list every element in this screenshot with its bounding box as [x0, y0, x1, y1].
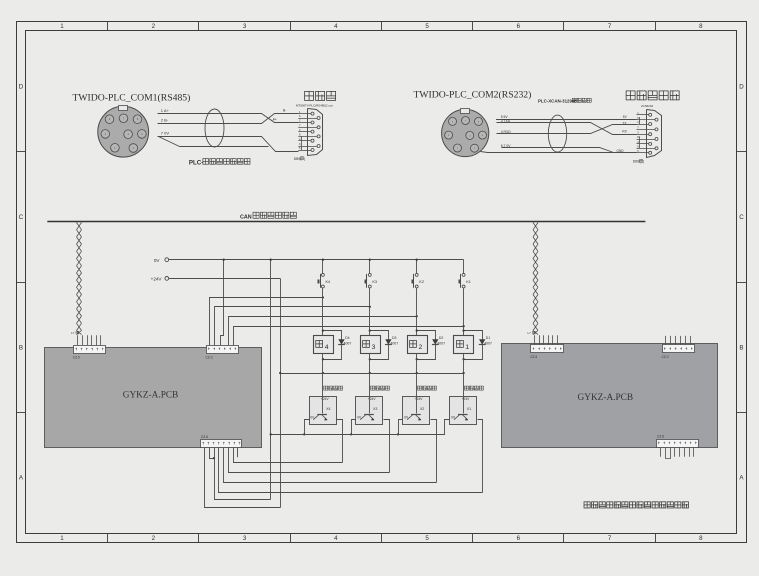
proximity switch X3: [356, 397, 383, 425]
connector J2 mini-DIN8 PLC COM2: [442, 109, 489, 157]
svg-text:): ): [643, 160, 644, 164]
label touchscreen title: [305, 91, 336, 100]
connector CZ.5 left PCB top-left: [73, 335, 106, 359]
svg-text:0V: 0V: [154, 258, 161, 263]
connector CZ.6 left PCB bottom: [201, 435, 242, 448]
wire X1 0V leg: [445, 420, 450, 435]
wire 0V to K2: [416, 259, 418, 274]
wire COM2 TXD: [497, 119, 637, 135]
wire X2 output leg: [431, 420, 437, 483]
svg-text:K3: K3: [372, 280, 377, 284]
wire COM2 0V: [501, 144, 614, 153]
wire 0V to K1: [463, 260, 465, 274]
wire valve control V3: [215, 306, 371, 346]
svg-text:PLC-: PLC-: [189, 159, 203, 166]
svg-text:D2: D2: [439, 336, 444, 340]
svg-text:1: 1: [465, 344, 469, 351]
svg-text:7: 7: [608, 535, 612, 542]
wire COM2 shield: [481, 152, 637, 153]
label COM1 title: [73, 92, 191, 103]
wire COM1 0V: [158, 131, 299, 152]
wire CZ.6 pin4 to X1: [219, 448, 483, 493]
svg-text:+24V: +24V: [151, 277, 163, 282]
wire 0V rail: [169, 259, 464, 261]
svg-text:3: 3: [243, 535, 247, 542]
connector DB9 protocol converter: [637, 110, 662, 158]
relay contact K3: [365, 273, 378, 288]
svg-text:X2: X2: [420, 407, 424, 411]
svg-text:7: 7: [637, 126, 639, 130]
wire 0V drop long: [270, 259, 272, 500]
svg-text:2: 2: [152, 535, 156, 542]
diode D2 flyback loop: [416, 329, 446, 360]
wire valve 4 to switch X4: [322, 353, 324, 396]
svg-text:B-: B-: [283, 108, 286, 112]
label protocol converter title: [626, 91, 679, 100]
label DB9 socket left: [294, 157, 305, 161]
svg-text:A: A: [19, 475, 24, 482]
svg-text:B: B: [19, 344, 23, 351]
svg-text:9: 9: [299, 142, 301, 146]
diode D4 flyback loop: [322, 329, 352, 360]
terminal +24V: [151, 277, 169, 282]
wire valve 1 to switch X1: [462, 353, 464, 396]
svg-text:L7: L7: [528, 331, 532, 335]
svg-text:3 TXD: 3 TXD: [501, 119, 511, 123]
relay contact K4: [318, 273, 331, 288]
svg-text:GND: GND: [617, 149, 625, 153]
wire CZ.6 pin8 stub: [237, 448, 239, 458]
label proximity switch 1: [464, 386, 483, 390]
svg-text:GYKZ-A.PCB: GYKZ-A.PCB: [123, 391, 179, 401]
svg-text:DB9(: DB9(: [633, 160, 642, 164]
node TX at DB9: [622, 121, 627, 125]
wire X3 0V leg: [350, 420, 356, 436]
svg-text:8: 8: [299, 133, 301, 137]
svg-text:3: 3: [243, 23, 247, 30]
svg-text:4: 4: [334, 23, 338, 30]
connector CZ.C left PCB top-right: [206, 346, 239, 360]
diode D1 flyback loop: [462, 329, 492, 360]
wire valve control V2: [229, 315, 418, 345]
svg-text:X4: X4: [326, 407, 330, 411]
wire valve control V4: [210, 296, 325, 345]
svg-text:6: 6: [517, 23, 521, 30]
wire X3 output leg: [384, 420, 390, 473]
svg-text:CZ.5: CZ.5: [530, 355, 537, 359]
svg-text:D1: D1: [486, 336, 491, 340]
wire CZ.6 pin6 to X3: [229, 448, 390, 473]
svg-text:+24V: +24V: [415, 397, 424, 401]
node GND at DB9: [617, 149, 625, 153]
label proximity switch 4: [324, 386, 343, 390]
node A+ at DB9: [273, 118, 277, 122]
label MT506TV-PLC(RS485): [296, 104, 333, 108]
valve V3: [361, 336, 381, 354]
svg-text:GYKZ-A.PCB: GYKZ-A.PCB: [578, 393, 634, 403]
wire COM1 A+: [158, 108, 299, 123]
wire COM1 shield: [159, 137, 269, 147]
svg-text:4: 4: [334, 535, 338, 542]
wire 0V to K3: [369, 259, 371, 274]
wire valve 3 to switch X3: [369, 353, 371, 396]
svg-text:CZ.6: CZ.6: [201, 435, 208, 439]
svg-text:TWIDO-PLC_COM1(RS485): TWIDO-PLC_COM1(RS485): [73, 92, 191, 103]
connector J1 mini-DIN8 PLC COM1: [98, 106, 149, 158]
diode D3 flyback loop: [369, 329, 399, 360]
wire CZ.6 pin5 to X2: [224, 448, 437, 483]
svg-text:A+: A+: [273, 118, 277, 122]
label L7M left: [71, 331, 79, 335]
wire K2 to valve 2: [416, 288, 418, 335]
valve V2: [408, 336, 428, 354]
node RX at DB9: [622, 129, 627, 133]
label DB9 plug right: [633, 159, 644, 163]
svg-text:6: 6: [299, 114, 301, 118]
wire +24V rail to valves: [279, 372, 464, 374]
svg-text:3: 3: [372, 344, 376, 351]
wire COM2 RXD: [497, 125, 637, 134]
connector CZ.8 right PCB bottom: [657, 435, 699, 459]
svg-text:D: D: [739, 84, 744, 91]
wire X2 0V leg: [397, 420, 403, 436]
svg-text:CZ.8: CZ.8: [657, 435, 664, 439]
label PLC-touchscreen comm cable: [189, 159, 250, 167]
relay contact K2: [412, 273, 424, 288]
valve V1: [454, 336, 474, 354]
label L7M right: [528, 331, 536, 335]
proximity switch X1: [450, 397, 477, 425]
svg-text:2CS6232: 2CS6232: [641, 104, 653, 108]
svg-text:X3: X3: [373, 407, 377, 411]
svg-text:4: 4: [325, 344, 329, 351]
connector CZ.C right PCB top-right: [662, 336, 695, 359]
wire X4 0V leg: [303, 420, 309, 436]
label CAN bus: [240, 212, 296, 220]
label PLC-XCAN comm cable: [538, 98, 591, 103]
svg-text:5V: 5V: [623, 115, 628, 119]
svg-text:9: 9: [637, 145, 639, 149]
svg-text:CZ.C: CZ.C: [206, 355, 214, 359]
svg-text:D3: D3: [392, 336, 397, 340]
proximity switch X2: [403, 397, 430, 425]
svg-text:5: 5: [425, 23, 429, 30]
svg-text:L7: L7: [71, 331, 75, 335]
valve V4: [314, 336, 334, 354]
connector CZ.5 right PCB top-left: [530, 335, 563, 359]
svg-text:A: A: [739, 475, 744, 482]
svg-text:4007: 4007: [344, 341, 352, 345]
svg-text:): ): [304, 157, 305, 161]
cable shield ellipse right: [548, 115, 566, 152]
svg-text:5: 5: [425, 535, 429, 542]
proximity switch X4: [310, 397, 337, 425]
svg-text:1: 1: [60, 23, 64, 30]
svg-text:7 0V: 7 0V: [161, 131, 170, 136]
svg-text:+24V: +24V: [462, 397, 471, 401]
label 2CS6232: [641, 104, 653, 108]
cable shield ellipse left: [205, 109, 224, 147]
svg-text:4007: 4007: [390, 341, 398, 345]
svg-text:2: 2: [152, 23, 156, 30]
wire CZ.6 pin2 stub: [210, 448, 216, 460]
label proximity switch 2: [417, 386, 436, 390]
svg-text:7: 7: [608, 23, 612, 30]
svg-text:8: 8: [699, 535, 703, 542]
PCB U2 GYKZ-A right: [502, 344, 718, 448]
label proximity switch 3: [371, 386, 390, 390]
svg-text:K1: K1: [466, 280, 471, 284]
wire 0V drop to CZ.C: [221, 259, 225, 346]
svg-text:CAN: CAN: [240, 214, 252, 220]
node 5V at DB9: [623, 115, 628, 119]
svg-text:CZ.C: CZ.C: [662, 355, 670, 359]
svg-text:K2: K2: [419, 280, 424, 284]
svg-text:2: 2: [419, 344, 423, 351]
wire X1 output leg: [478, 420, 483, 493]
svg-text:DB9(: DB9(: [294, 157, 303, 161]
svg-text:4 RXD: 4 RXD: [501, 130, 512, 134]
wire K1 to valve 1: [463, 288, 465, 335]
svg-text:4007: 4007: [437, 341, 445, 345]
svg-text:3: 3: [637, 130, 639, 134]
wire valve 2 to switch X2: [416, 353, 418, 396]
svg-text:D: D: [19, 84, 24, 91]
node B- at DB9: [283, 108, 286, 112]
svg-text:4007: 4007: [484, 341, 492, 345]
wire CZ.6 pin1 to +24V: [205, 448, 281, 508]
wire +24V feed: [169, 278, 281, 507]
svg-text:RX: RX: [622, 129, 627, 133]
svg-text:CZ.5: CZ.5: [73, 356, 80, 360]
terminal 0V: [154, 258, 169, 263]
label system wiring diagram caption: [584, 502, 688, 508]
svg-text:1: 1: [60, 535, 64, 542]
wire COM1 B-: [158, 114, 299, 124]
svg-text:C: C: [739, 214, 744, 221]
svg-text:PLC-XCAN-312948: PLC-XCAN-312948: [538, 98, 577, 103]
wire CZ.6 pin7 to X4: [234, 448, 343, 463]
wire COM2 5V: [496, 115, 637, 120]
PCB U1 GYKZ-A left: [45, 348, 262, 448]
svg-text:8: 8: [699, 23, 703, 30]
svg-text:1 A+: 1 A+: [161, 108, 170, 113]
svg-text:K4: K4: [326, 280, 331, 284]
wire X4 output leg: [337, 420, 343, 463]
label COM2 title: [414, 90, 532, 101]
svg-text:8: 8: [637, 135, 639, 139]
svg-text:7: 7: [299, 124, 301, 128]
wire twisted pair to right PCB: [533, 223, 538, 335]
wire CAN field control bus: [47, 221, 645, 223]
svg-text:6,7 0V: 6,7 0V: [501, 144, 512, 148]
relay contact K1: [459, 273, 471, 288]
wire 0V to K4: [322, 259, 324, 274]
svg-text:2 B-: 2 B-: [161, 117, 169, 122]
wire K3 to valve 3: [369, 288, 371, 335]
connector DB9 touchscreen: [298, 109, 322, 156]
wire twisted pair to left PCB: [77, 223, 82, 335]
svg-text:TWIDO-PLC_COM2(RS232): TWIDO-PLC_COM2(RS232): [414, 90, 532, 101]
svg-text:2: 2: [637, 120, 639, 124]
svg-text:B: B: [739, 344, 743, 351]
wire 0V bus to switches: [270, 433, 445, 435]
wire K4 to valve 4: [322, 288, 324, 335]
svg-text:MT506TV-PLC(RS485)2 con: MT506TV-PLC(RS485)2 con: [296, 104, 333, 108]
wire valve control V1: [234, 325, 465, 345]
svg-text:X1: X1: [467, 407, 471, 411]
svg-text:D4: D4: [345, 336, 350, 340]
wire CZ.6 pin3 to 0V: [215, 448, 271, 500]
svg-text:6: 6: [517, 535, 521, 542]
svg-text:C: C: [19, 214, 24, 221]
